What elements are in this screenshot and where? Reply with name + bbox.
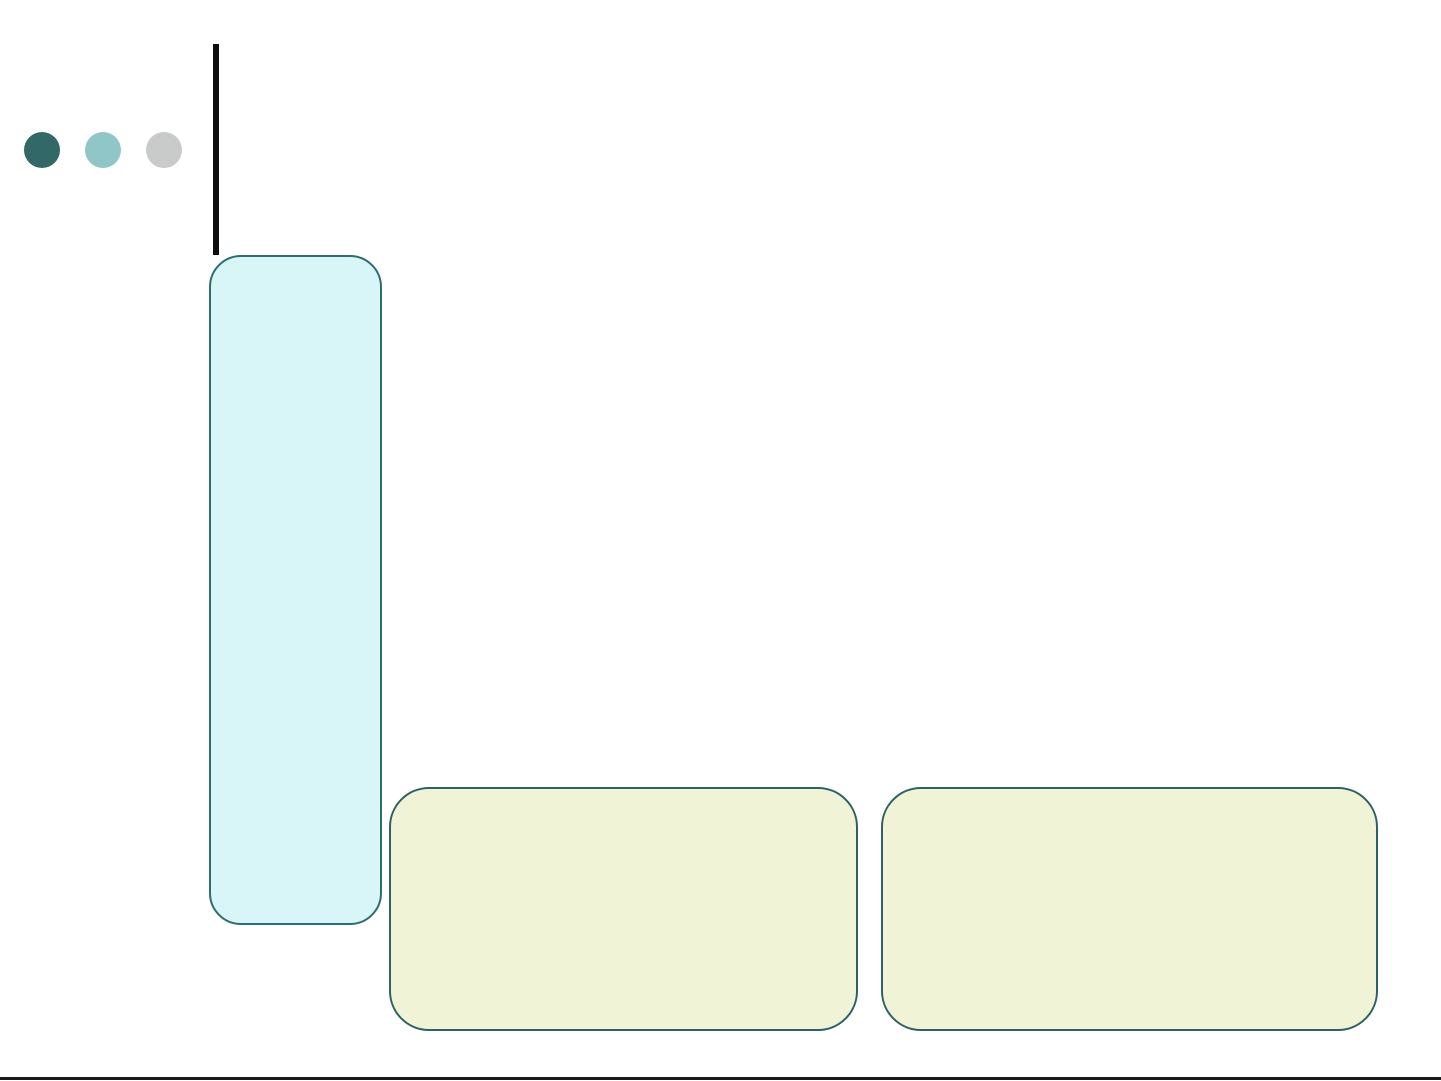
yellow text panel right [881,787,1378,1031]
cyan text panel [209,255,382,925]
template dot 3 (gray) [146,132,182,168]
yellow text panel left [389,787,858,1031]
template dot 2 (light teal) [85,132,121,168]
vertical accent bar [213,44,219,255]
bottom rule [0,1077,1441,1080]
template dot 1 (dark teal) [24,132,60,168]
